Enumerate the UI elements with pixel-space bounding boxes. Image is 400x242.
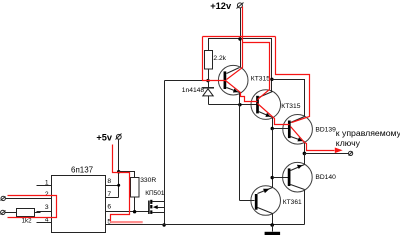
svg-text:BD139: BD139 [315, 127, 336, 134]
wire red 2.2k bypass [203, 37, 226, 81]
wire red to Q2 collector [243, 43, 270, 100]
wire Q2 emitter to Q3 base node [273, 118, 290, 129]
node Q1 emitter / Q2 base [238, 103, 241, 106]
svg-text:ключу: ключу [336, 138, 361, 148]
wire drain column [164, 81, 166, 225]
svg-text:BD140: BD140 [315, 174, 336, 181]
wire 2.2k top lead [209, 39, 241, 51]
svg-text:+12v: +12v [210, 1, 232, 11]
transistor Q5 KT361 circle [251, 186, 281, 216]
wire +12v rail down [240, 8, 242, 68]
node +12v branch [238, 37, 241, 40]
wire ground rail pin5 [106, 224, 305, 226]
wire Q4 base horizontal [273, 177, 289, 179]
wire +12v to Q2 collector [241, 39, 272, 92]
wire Q3 emitter to output node [304, 142, 306, 154]
resistor R2 330R [131, 177, 157, 197]
svg-text:1n4148: 1n4148 [182, 87, 205, 94]
red output arrowhead [335, 148, 343, 154]
wire Q5 base horizontal [240, 200, 255, 202]
pin 2 [37, 191, 52, 199]
wire to 330R top [119, 172, 135, 178]
terminal X1 [1, 196, 6, 200]
wire down to Q4 base node [272, 129, 274, 188]
svg-text:+5v: +5v [96, 133, 112, 143]
diode D1 1n4148 [182, 81, 214, 105]
wire red Q3 emitter to output [291, 127, 335, 151]
pin 1 [37, 180, 52, 187]
node diode/2.2k [206, 79, 209, 82]
wire red to Q3 collector [276, 37, 310, 123]
terminal output [349, 151, 353, 155]
node pin8 [117, 184, 120, 187]
resistor R3 1k2 [17, 209, 35, 225]
output label [336, 128, 400, 148]
pin 4 [37, 217, 52, 224]
transistor Q4 BD140 internals [289, 165, 336, 190]
node gate [133, 210, 136, 213]
wire red Q2 emitter to Q3 base [258, 104, 290, 125]
node source/ground [162, 223, 165, 226]
svg-text:6: 6 [107, 204, 111, 211]
svg-text:8: 8 [107, 178, 111, 185]
wire red +12v drop [227, 7, 243, 80]
svg-text:3: 3 [45, 204, 49, 211]
transistor Q3 BD139 circle [283, 115, 313, 145]
svg-text:1k2: 1k2 [22, 217, 33, 224]
wire Q4 collector to ground rail [304, 190, 306, 225]
wire Q5 collector to ground [272, 214, 274, 225]
wire Q1 emitter down to Q5 base [239, 93, 241, 201]
wire red loop pins 2-3 [8, 196, 57, 218]
node ground [270, 223, 274, 227]
pin 7 [106, 191, 119, 198]
pin 8 [106, 178, 119, 185]
resistor R1 2.2k [205, 51, 227, 70]
wire red +5v drop [111, 145, 130, 222]
svg-text:КТ315: КТ315 [281, 103, 300, 110]
node Q3 collector branch [270, 78, 273, 81]
svg-text:2: 2 [45, 191, 49, 198]
svg-text:КТ315: КТ315 [251, 76, 270, 83]
transistor Q2 KT315 circle [251, 90, 281, 120]
wire red pin5 [110, 221, 143, 223]
wire red Q1 emitter to Q2 base [226, 81, 258, 102]
svg-text:к управляемому: к управляемому [336, 128, 400, 138]
wire Q4 emitter up [304, 154, 306, 165]
IC U1 6п137 body [52, 166, 106, 233]
svg-text:330R: 330R [140, 177, 156, 184]
node output [303, 152, 307, 156]
svg-text:2.2k: 2.2k [213, 55, 226, 62]
pin 6 [106, 204, 149, 212]
node +5v/330R [117, 170, 120, 173]
terminal +5v [116, 134, 122, 140]
transistor Q1 KT315 internals [225, 68, 270, 93]
svg-text:6п137: 6п137 [71, 166, 94, 175]
transistor Q3 BD139 internals [289, 117, 336, 142]
svg-text:КП501: КП501 [145, 190, 165, 197]
wire base node horizontal [165, 80, 225, 82]
transistor Q4 BD140 circle [283, 162, 313, 192]
svg-text:1: 1 [45, 180, 49, 187]
svg-text:7: 7 [107, 191, 111, 198]
transistor Q2 KT315 internals [258, 92, 301, 118]
wire branch to Q3 collector [272, 80, 305, 117]
wire R3 to pin3 [35, 212, 41, 214]
pin 3 [37, 204, 52, 211]
node Q4 base [271, 176, 274, 179]
svg-text:КТ361: КТ361 [283, 199, 302, 206]
terminal X2 [1, 210, 6, 214]
wire X2 to R3 [5, 212, 17, 214]
wire 2.2k bottom lead [208, 69, 210, 81]
wire red top rail [203, 36, 276, 38]
wire X1 to pin2 [6, 198, 52, 200]
wire output [305, 153, 349, 155]
node Q3 base [271, 127, 274, 130]
wire 330R bottom to gate node [134, 197, 136, 212]
wire D1 anode to Q2 base [209, 104, 257, 106]
terminal +12v [237, 3, 244, 9]
transistor Q1 KT315 circle [218, 65, 248, 95]
wire +5v down to pin7 [118, 140, 120, 198]
ground [265, 225, 281, 236]
transistor Q6 КП501 [145, 190, 165, 214]
transistor Q5 KT361 internals [256, 188, 302, 214]
